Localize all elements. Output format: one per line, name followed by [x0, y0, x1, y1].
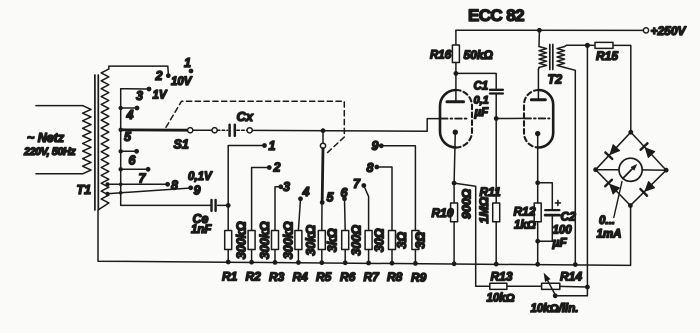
- tube ECC82 triode 1 envelope: [440, 90, 456, 148]
- svg-text:300kΩ: 300kΩ: [235, 221, 249, 259]
- tube 1 grid (dash-dot): [441, 118, 468, 120]
- svg-text:1mA: 1mA: [597, 229, 622, 241]
- svg-text:6: 6: [341, 186, 349, 200]
- svg-text:2: 2: [273, 161, 281, 175]
- wire tap 9: [108, 188, 191, 194]
- svg-text:Cx: Cx: [237, 109, 254, 124]
- wire switch coupling (dashed): [166, 101, 344, 153]
- tube 1 cathode: [453, 130, 458, 135]
- svg-text:R4: R4: [293, 270, 309, 284]
- node terminal 4: [135, 106, 140, 111]
- svg-text:R6: R6: [340, 270, 356, 284]
- svg-text:9: 9: [194, 184, 201, 198]
- svg-text:5: 5: [124, 130, 132, 144]
- node terminal 8: [165, 182, 170, 187]
- contact 4 wire: [298, 199, 300, 231]
- svg-text:7: 7: [353, 177, 361, 191]
- node terminal 2: [166, 73, 171, 78]
- node cathode 2 junction: [535, 180, 540, 185]
- svg-text:T1: T1: [77, 183, 92, 197]
- svg-text:C1: C1: [474, 81, 489, 93]
- resistor R5: [321, 202, 323, 230]
- svg-text:10kΩ: 10kΩ: [487, 293, 515, 305]
- resistor R6: [342, 231, 349, 250]
- svg-text:6: 6: [129, 153, 137, 167]
- node terminal 3: [147, 87, 152, 92]
- svg-text:2: 2: [155, 69, 163, 83]
- node Ce junction: [226, 203, 231, 208]
- resistor R10: [453, 183, 455, 203]
- svg-text:3Ω: 3Ω: [395, 232, 409, 249]
- svg-text:R3: R3: [269, 270, 285, 284]
- svg-text:4: 4: [302, 185, 310, 199]
- svg-text:1: 1: [184, 56, 191, 70]
- svg-text:R9: R9: [411, 270, 427, 284]
- T2 right winding: [557, 47, 565, 68]
- wire Cx to grid of tube 1: [252, 119, 440, 132]
- switch S1 pole 2 arm: [321, 149, 325, 201]
- potentiometer R14: [542, 283, 560, 289]
- node terminal 6: [134, 149, 139, 154]
- svg-text:R2: R2: [246, 270, 262, 284]
- svg-text:50kΩ: 50kΩ: [464, 48, 494, 62]
- tube 1 plate: [447, 100, 464, 103]
- resistor R8: [389, 231, 396, 250]
- wire mains lead bottom: [36, 173, 83, 175]
- resistor R12: [534, 203, 541, 222]
- wire mains lead top: [36, 105, 83, 107]
- capacitor C1: [490, 89, 503, 91]
- svg-text:10kΩ/lin.: 10kΩ/lin.: [531, 303, 579, 315]
- bottom bus wire: [98, 203, 631, 265]
- svg-text:30Ω: 30Ω: [372, 228, 386, 252]
- resistor R9: [412, 231, 419, 250]
- contact 2 wire: [252, 168, 270, 231]
- wire tap bus vertical: [121, 89, 211, 206]
- contact 9 wire: [381, 146, 415, 231]
- svg-text:8: 8: [367, 161, 374, 175]
- svg-text:8: 8: [171, 178, 178, 192]
- wire tap 8: [108, 183, 168, 185]
- svg-text:R14: R14: [560, 270, 582, 284]
- svg-text:4: 4: [126, 108, 134, 122]
- transformer T2: [537, 28, 542, 33]
- node C1 / grid 2 junction: [494, 116, 499, 121]
- wire tap 4: [121, 107, 137, 109]
- T2 core: [549, 45, 551, 70]
- svg-text:C2: C2: [561, 210, 577, 224]
- svg-text:5: 5: [327, 191, 335, 205]
- wire cathode 1 to R13: [454, 183, 490, 286]
- node plate 1 junction: [454, 71, 459, 76]
- wire tap 6: [121, 150, 137, 152]
- svg-text:µF: µF: [552, 236, 568, 250]
- svg-text:ECC 82: ECC 82: [468, 6, 524, 25]
- svg-text:300kΩ: 300kΩ: [258, 221, 272, 259]
- svg-text:7: 7: [139, 171, 147, 185]
- node R15 left junction: [585, 43, 590, 48]
- +250V rail wire: [456, 29, 643, 31]
- svg-text:1V: 1V: [153, 90, 168, 102]
- svg-text:R1: R1: [222, 270, 238, 284]
- svg-text:R16: R16: [430, 50, 452, 62]
- capacitor Ce: [210, 200, 212, 211]
- tube 2 cathode: [535, 131, 540, 136]
- svg-text:R10: R10: [432, 206, 454, 220]
- contact 8 wire: [377, 167, 392, 231]
- resistor R2: [248, 231, 255, 250]
- tube ECC82 triode 2 envelope: [524, 90, 539, 148]
- svg-text:1nF: 1nF: [191, 224, 212, 236]
- resistor R13: [490, 283, 507, 289]
- svg-text:3kΩ: 3kΩ: [326, 228, 340, 252]
- contact 6 wire: [344, 199, 347, 231]
- wire secondary top lead to terminal 2: [109, 66, 169, 73]
- switch S1 pole 1 arm: [121, 128, 188, 131]
- svg-text:1kΩ: 1kΩ: [514, 220, 536, 232]
- svg-text:9: 9: [372, 139, 379, 153]
- bridge diode top-right: [641, 143, 655, 157]
- resistor R11: [495, 119, 497, 204]
- svg-text:+250V: +250V: [651, 24, 687, 38]
- transformer T1 core: [94, 75, 96, 210]
- svg-text:300kΩ: 300kΩ: [281, 221, 295, 259]
- svg-text:0,1: 0,1: [474, 95, 489, 107]
- tube 2 plate: [531, 98, 545, 101]
- capacitor Cx (device under test): [217, 129, 227, 131]
- svg-text:3: 3: [136, 89, 143, 103]
- wire tap 7: [121, 168, 148, 170]
- svg-text:µF: µF: [474, 107, 490, 119]
- svg-text:30kΩ: 30kΩ: [304, 225, 318, 256]
- contact 5 (switch arm end): [320, 200, 325, 205]
- svg-text:R7: R7: [364, 270, 381, 284]
- wire plate junction to C1: [456, 73, 496, 88]
- svg-text:1: 1: [269, 139, 276, 153]
- resistor R16: [455, 30, 457, 45]
- svg-text:3: 3: [283, 180, 290, 194]
- svg-text:S1: S1: [174, 137, 189, 151]
- svg-text:10V: 10V: [171, 76, 193, 88]
- svg-text:R8: R8: [387, 270, 403, 284]
- meter bridge: [596, 132, 667, 205]
- contact 1 wire: [228, 146, 264, 231]
- svg-text:300Ω: 300Ω: [349, 225, 363, 256]
- svg-text:R12: R12: [514, 205, 536, 219]
- bridge diode top-left: [605, 144, 619, 158]
- resistor R3: [272, 231, 279, 250]
- resistor R7: [365, 231, 372, 250]
- svg-text:1MΩ: 1MΩ: [477, 197, 491, 224]
- node +250V terminal: [643, 28, 648, 33]
- resistor R15: [587, 44, 595, 46]
- meter wires: [596, 169, 620, 171]
- svg-text:T2: T2: [548, 73, 563, 87]
- svg-text:R13: R13: [491, 270, 513, 284]
- contact 7 wire: [364, 186, 369, 231]
- svg-text:~ Netz: ~ Netz: [27, 131, 65, 145]
- wire R15 junction down to R14: [586, 45, 588, 287]
- svg-text:900Ω: 900Ω: [459, 188, 473, 219]
- svg-text:220V, 50Hz: 220V, 50Hz: [23, 146, 76, 158]
- wire S1 to Cx terminal: [193, 129, 212, 131]
- resistor R4: [295, 231, 302, 250]
- node switch pole 2 junction: [321, 128, 326, 133]
- node terminal 7: [146, 167, 151, 172]
- node terminal 1: [189, 69, 194, 74]
- svg-text:R5: R5: [316, 270, 332, 284]
- resistor R1: [225, 231, 232, 250]
- contact 3 wire: [275, 187, 281, 231]
- svg-text:0...: 0...: [599, 215, 615, 227]
- transformer T1 secondary winding: [101, 69, 109, 203]
- bridge diode bottom-right: [640, 181, 654, 195]
- svg-text:0,1V: 0,1V: [188, 171, 213, 183]
- tube 2 grid wire: [496, 117, 524, 119]
- bridge diode bottom-left: [605, 180, 619, 194]
- T2 left winding: [539, 47, 547, 68]
- svg-text:3Ω: 3Ω: [414, 232, 428, 249]
- wire tap 3: [121, 88, 149, 90]
- capacitor C2 electrolytic: [538, 183, 553, 209]
- node tap 5 junction: [119, 128, 123, 132]
- transformer T1 primary winding: [83, 106, 91, 174]
- node terminal 9: [188, 185, 193, 190]
- node cathode 1 junction: [452, 181, 457, 186]
- meter M1: [619, 158, 642, 181]
- svg-text:R15: R15: [596, 49, 618, 63]
